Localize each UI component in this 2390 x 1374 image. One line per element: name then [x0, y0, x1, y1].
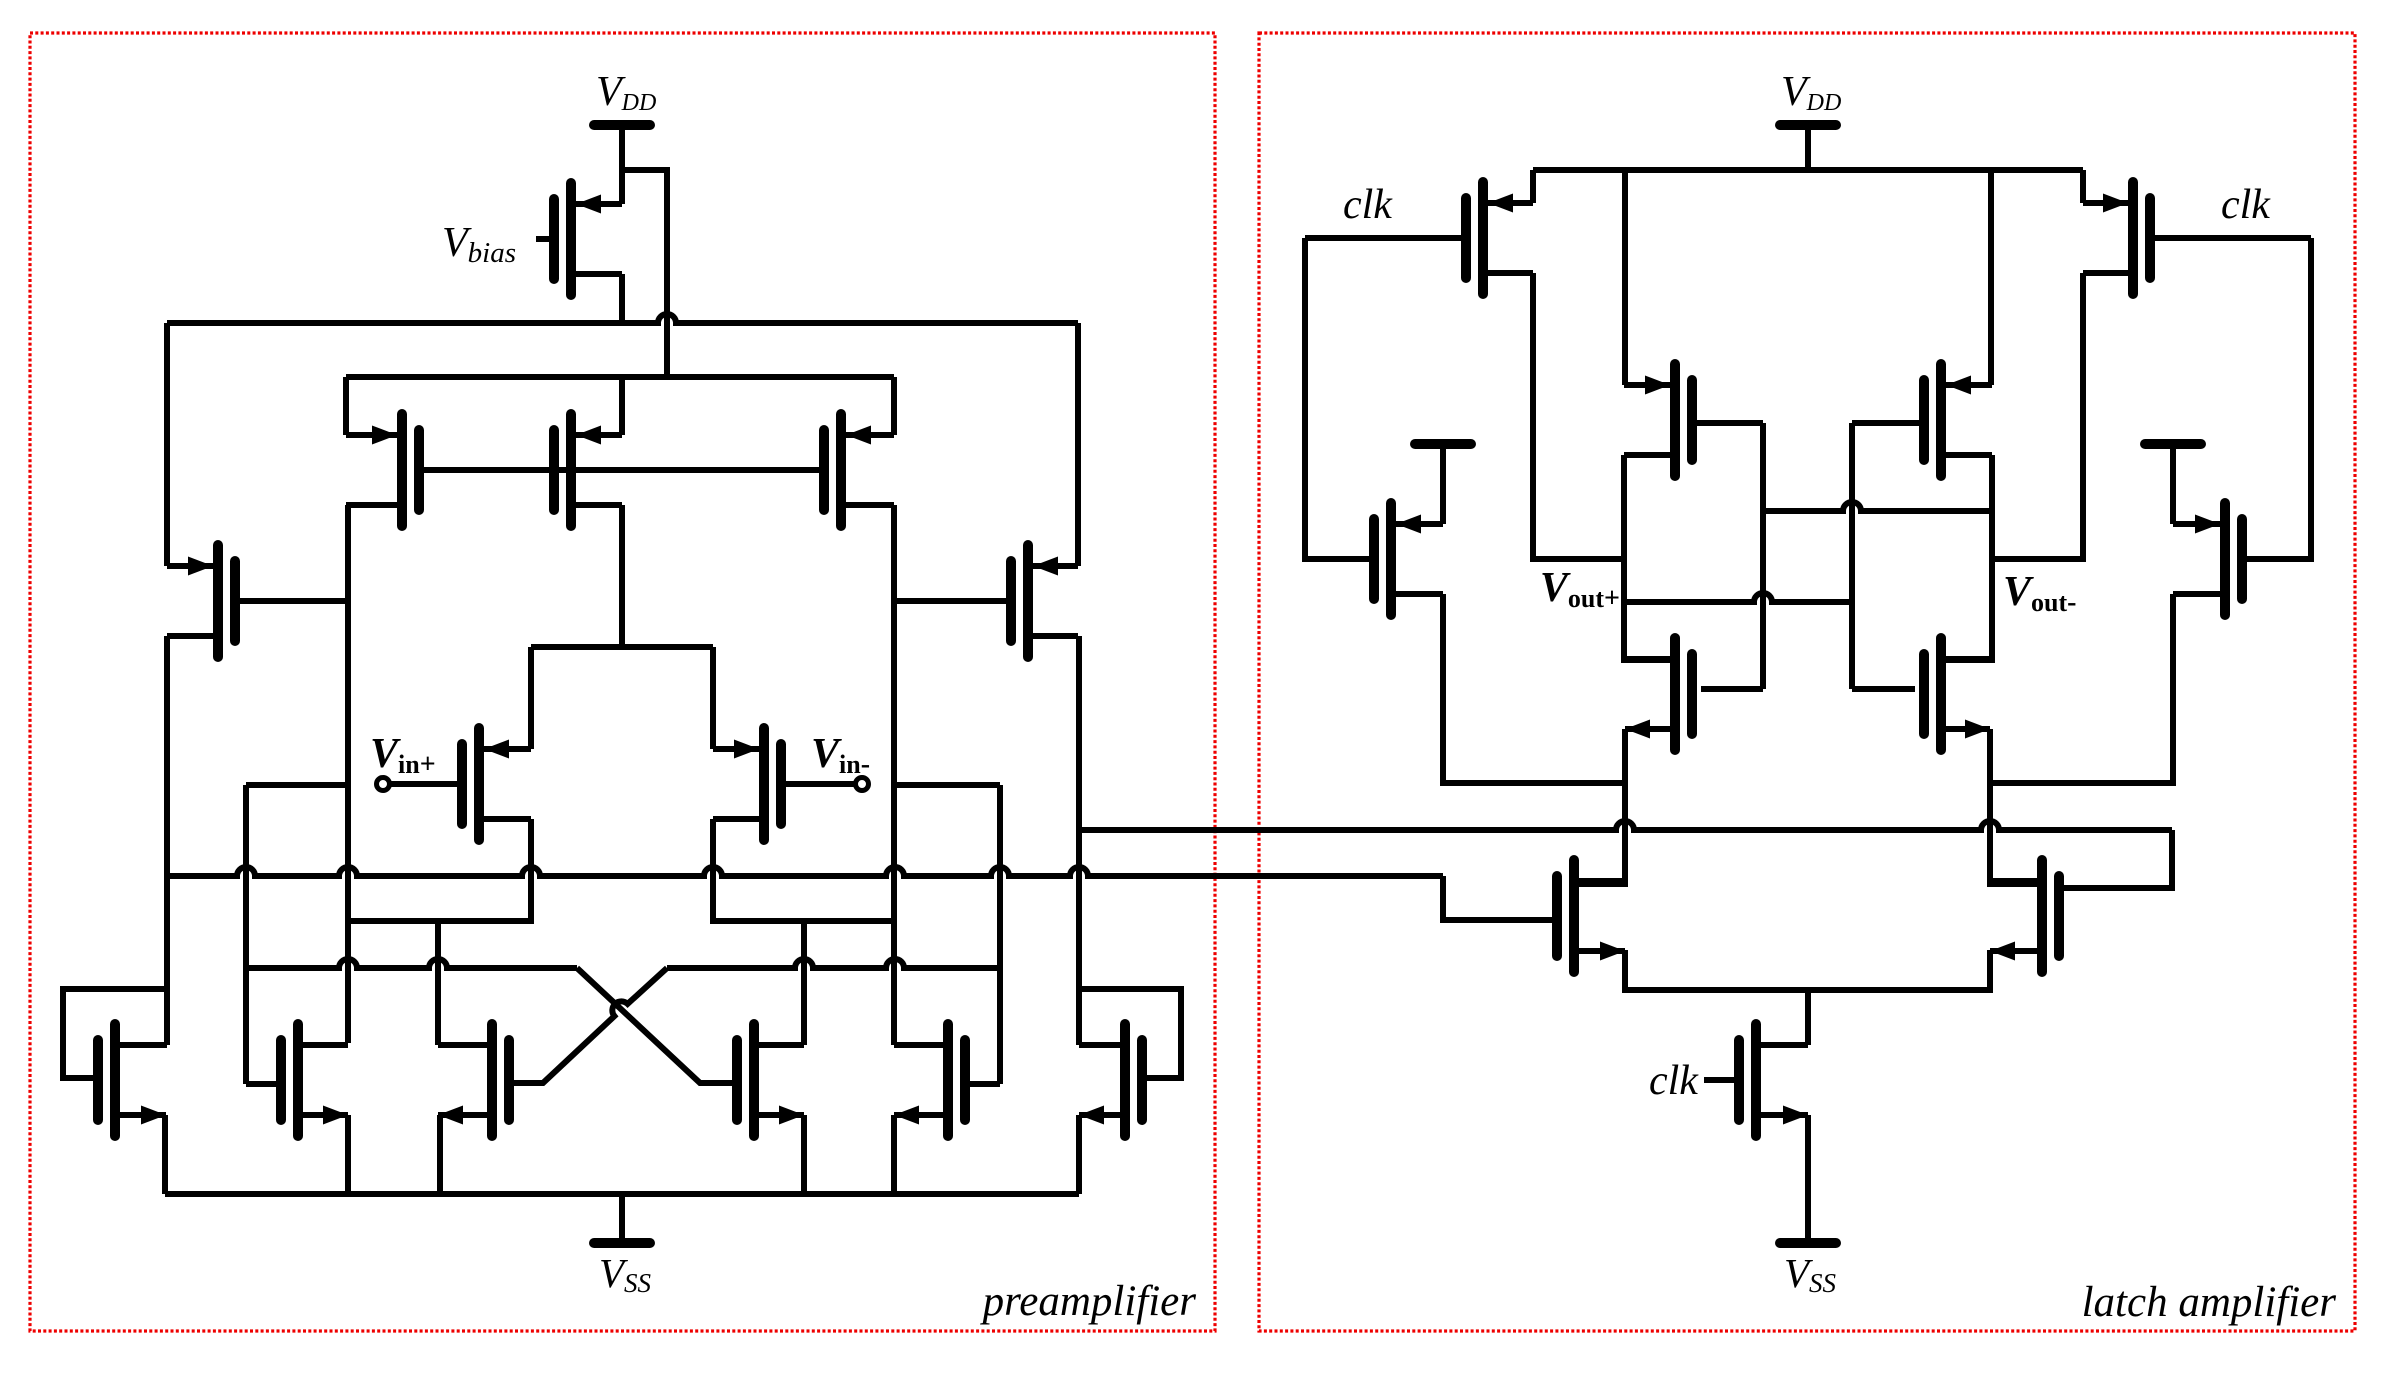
wire Vout- cross line to P3 gate: [1763, 502, 1992, 511]
terminal Vin- circle: [856, 778, 869, 791]
transistor NM2 latch input NMOS right: [1990, 860, 2059, 972]
transistor P6 reset PMOS right: [2173, 503, 2242, 615]
wire node 438 drop to N3 drain: [435, 921, 441, 1045]
transistor P1 clk PMOS left: [1466, 182, 1533, 294]
wire rail2 left drop to M1 source: [343, 377, 349, 435]
wire tail drop left: [528, 647, 534, 749]
wire right gate path to N6: [1079, 989, 1181, 1078]
wire busC left (cross-couple left): [246, 959, 577, 968]
wire N4 source to VSS rail: [801, 1115, 807, 1194]
wire M4 gate lead: [240, 598, 348, 604]
transistor N5 NMOS inner right: [894, 1024, 965, 1136]
wire x246 vertical: [243, 785, 249, 1084]
wire clk net left down to reset gate: [1305, 238, 1369, 559]
wire node B column (M3 drain to N5 drain): [891, 505, 897, 1045]
transistor P5 clk PMOS right: [2083, 182, 2150, 294]
wire N2 gate lead: [246, 1081, 277, 1087]
transistor N4 NMOS mid right: [737, 1024, 804, 1136]
wire NM4 gate lead: [1852, 686, 1915, 692]
wire Vin- gate lead: [786, 781, 854, 787]
wire node A column (M1 drain to N2 drain): [345, 505, 351, 1043]
wire M7 drain down: [713, 819, 895, 921]
wire N6 drain lead to right column: [1079, 1042, 1121, 1048]
wire rail2 (top PMOS source rail): [346, 374, 894, 380]
wire NM3 gate lead: [1701, 686, 1763, 692]
wire rail2 right drop to M3 source: [891, 377, 897, 435]
transistor NM4 cross NMOS right: [1924, 638, 1990, 750]
wire gate line of M1-M2-M3: [419, 467, 824, 473]
transistor P2 reset PMOS left: [1374, 503, 1443, 615]
wire NT source to VSS: [1805, 1115, 1811, 1238]
transistor M2 top PMOS middle: [554, 414, 622, 526]
transistor NM1 latch input NMOS left: [1557, 860, 1625, 972]
wire Vout+ column upper: [1624, 455, 1670, 660]
transistor M5 side PMOS right: [1011, 545, 1078, 657]
transistor M6 input PMOS Vin+: [462, 728, 531, 840]
wire cross diagonal right-to-left (with hop): [514, 968, 667, 1083]
wire VDD branch to node column: [622, 170, 667, 374]
wire clk net right down to reset gate: [2247, 238, 2311, 559]
wire M5 drain down right column: [1076, 636, 1082, 1045]
transistor P4 cross PMOS right: [1924, 364, 1992, 476]
wire M6 drain down: [348, 819, 531, 921]
wire VDD rail (latch): [1533, 167, 2083, 173]
wire Vbias gate lead: [536, 236, 554, 242]
wire rail right end down to clk PMOS source: [2080, 170, 2086, 203]
VSS bar (latch): [1780, 1238, 1836, 1248]
wire node column x1000 (N5 gate net): [895, 782, 1000, 788]
wire node 804 drop to N4 drain: [801, 921, 807, 1045]
wire N6 source to VSS rail: [1076, 1115, 1082, 1194]
wire P6 drain down-left to NM4 source: [1990, 594, 2173, 783]
wire N5 source to VSS rail: [891, 1115, 897, 1194]
wire P3 gate lead right: [1697, 420, 1763, 426]
svg-text:clk: clk: [2221, 182, 2271, 228]
VDD mini bar (latch left): [1415, 444, 1471, 524]
wire tail spread bar: [531, 644, 713, 650]
terminal Vin+ circle: [377, 778, 390, 791]
wire clk gate lead right: [2155, 235, 2311, 241]
wire NM3 source column down: [1578, 729, 1625, 884]
wire P3 gate column down to NM3 gate: [1760, 423, 1766, 689]
wire M2 drain to tail node: [619, 505, 625, 647]
transistor P3 cross PMOS left: [1624, 364, 1692, 476]
wire busC right (cross-couple right): [667, 959, 1000, 968]
wire P4 gate column down to NM4 gate: [1849, 423, 1855, 689]
wire rail1 (cascode source rail): [167, 314, 1078, 323]
transistor M3 top PMOS right: [824, 414, 894, 526]
wire N1 drain lead to left column: [119, 1042, 167, 1048]
transistor NM3 cross NMOS left: [1625, 638, 1692, 750]
wire Vin+ gate lead: [391, 781, 457, 787]
transistor M9 Vbias PMOS current source: [554, 183, 622, 295]
svg-text:latch amplifier: latch amplifier: [2082, 1279, 2337, 1326]
svg-text:preamplifier: preamplifier: [980, 1278, 1197, 1325]
wire NM4 source column down: [1990, 729, 2038, 884]
transistor NT clk tail NMOS: [1739, 1024, 1808, 1136]
wire tail drop to NT drain: [1805, 990, 1811, 1045]
wire rail2 center drop to M2 source: [619, 377, 625, 435]
wire rail left end down to clk PMOS source: [1530, 170, 1536, 203]
wire rail1 left drop: [164, 323, 170, 566]
latch amplifier box (dashed red): [1259, 33, 2355, 1331]
wire P5 drain to Vout- node: [1992, 273, 2083, 559]
preamplifier box (dashed red): [30, 33, 1215, 1331]
wire busA drop to NM1 gate: [1443, 876, 1553, 920]
VSS bar (preamp): [594, 1194, 650, 1243]
wire clk gate lead left: [1305, 235, 1461, 241]
wire left gate path to N1: [63, 989, 167, 1078]
wire N4 drain lead: [758, 1042, 804, 1048]
wire N1 source to VSS rail: [162, 1115, 168, 1194]
VDD supply bar (latch): [1780, 125, 1836, 172]
wire P4 gate lead left: [1852, 420, 1919, 426]
wire tail node latch: [1625, 950, 1990, 990]
wire rail1 right drop: [1075, 323, 1081, 566]
transistor M7 input PMOS Vin-: [713, 728, 781, 840]
wire M4 drain down left column: [164, 636, 170, 1045]
wire Vout+ cross line to P4 gate: [1624, 593, 1852, 602]
wire cross diagonal left-to-right: [577, 968, 733, 1083]
wire Vout- column upper: [1946, 455, 1992, 660]
wire node column x246 (N2 gate net): [246, 782, 346, 788]
wire busA preamp output lower (to latch): [167, 867, 1443, 876]
wire NT gate lead: [1704, 1077, 1735, 1083]
wire P1 drain to Vout+ node: [1533, 273, 1624, 559]
wire N3 drain lead: [438, 1042, 487, 1048]
wire N2 source to VSS rail: [345, 1115, 351, 1194]
wire M9 drain to rail1: [619, 274, 625, 323]
wire M5 gate lead: [894, 598, 1006, 604]
wire VSS rail (preamp): [165, 1191, 1079, 1197]
wire busB preamp output upper (to latch): [1079, 821, 2172, 830]
transistor M4 side PMOS left: [167, 545, 235, 657]
svg-text:clk: clk: [1649, 1058, 1699, 1104]
transistor N2 NMOS inner left: [281, 1024, 348, 1136]
transistor M1 top PMOS left: [346, 414, 419, 526]
wire busB drop to NM2 gate: [2063, 830, 2172, 888]
wire P2 drain down-right to NM3 source: [1443, 594, 1625, 783]
transistor N6 NMOS far right: [1079, 1024, 1142, 1136]
wire rail drop to P4 source: [1988, 170, 1994, 385]
VDD supply bar (preamp): [594, 125, 650, 172]
wire N5 gate lead: [969, 1081, 1000, 1087]
wire N3 source to VSS rail: [437, 1115, 443, 1194]
transistor N3 NMOS mid left: [438, 1024, 509, 1136]
wire x1000 vertical: [997, 785, 1003, 1084]
VDD mini bar (latch right): [2145, 444, 2201, 524]
transistor N1 NMOS far left: [98, 1024, 166, 1136]
wire rail drop to P3 source: [1622, 170, 1628, 385]
wire tail drop right: [710, 647, 716, 749]
svg-text:clk: clk: [1343, 182, 1393, 228]
wire VDD stem to Vbias source: [619, 170, 625, 204]
